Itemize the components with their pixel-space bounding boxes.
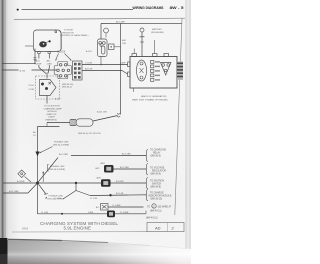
svg-text:105 WIRE AT: 105 WIRE AT [158,206,172,209]
svg-text:C104: C104 [29,85,35,87]
svg-text:TO: TO [147,207,150,209]
svg-text:HARNESS): HARNESS) [46,119,58,122]
svg-text:(BACK OF GENERATOR): (BACK OF GENERATOR) [141,95,167,98]
svg-text:TO VOLTAGE: TO VOLTAGE [150,167,165,170]
svg-text:REGULATOR: REGULATOR [152,170,166,173]
svg-text:TO CHARGE: TO CHARGE [150,192,164,195]
svg-text:GRY: GRY [95,168,100,170]
svg-text:(8W-30-6): (8W-30-6) [151,174,162,176]
svg-text:L1 12B: L1 12B [90,198,97,200]
svg-text:14B: 14B [122,43,126,45]
svg-text:BATTERY: BATTERY [152,28,162,31]
svg-text:A 14BR: A 14BR [17,180,25,183]
svg-text:A1 14B: A1 14B [116,192,124,195]
svg-text:RELAY: RELAY [153,152,161,155]
svg-text:INDICATOR MODULE: INDICATOR MODULE [149,195,172,198]
svg-text:A 12BR: A 12BR [116,180,124,183]
svg-text:L1 12B: L1 12B [54,198,61,200]
svg-text:TO DIODE FOR: TO DIODE FOR [44,106,60,108]
svg-text:(PART SIDE TOWARD OF ENGINE): (PART SIDE TOWARD OF ENGINE) [132,98,168,101]
svg-text:CHARGING LAMP: CHARGING LAMP [44,107,63,110]
svg-text:MODULE: MODULE [48,111,58,113]
svg-text:A 143: A 143 [86,50,92,53]
svg-text:A 142: A 142 [55,98,61,101]
svg-text:(8W-30-6) 13C SPLICE: (8W-30-6) 13C SPLICE [78,133,101,135]
svg-text:TO CHARGING: TO CHARGING [150,149,166,152]
svg-text:A 130: A 130 [20,70,26,73]
svg-text:A13 14BK: A13 14BK [9,190,19,193]
svg-text:DASH: DASH [49,116,55,119]
svg-text:A142 14R: A142 14R [97,111,107,114]
svg-text:AD: AD [155,225,161,230]
svg-text:(8W-40-11): (8W-40-11) [146,218,158,220]
svg-text:A4 14R: A4 14R [85,68,93,71]
svg-text:(8W-30-10): (8W-30-10) [151,199,163,201]
svg-text:TO FUSE: TO FUSE [64,30,74,32]
svg-text:WIRING DIAGRAMS: WIRING DIAGRAMS [133,5,164,10]
svg-text:(8W-30-15): (8W-30-15) [62,84,73,86]
svg-text:14BR: 14BR [120,63,126,65]
svg-text:A1R: A1R [101,162,106,165]
svg-text:A0 14BR: A0 14BR [116,21,125,24]
svg-text:A1 12BR: A1 12BR [59,153,68,156]
svg-text:(PART OF: (PART OF [47,113,58,116]
svg-text:5.9L ENGINE: 5.9L ENGINE [64,225,92,230]
svg-text:(CENTER OF DASH PANEL): (CENTER OF DASH PANEL) [60,34,89,37]
svg-text:(8W-30-8): (8W-30-8) [151,187,162,189]
svg-text:L4 14R: L4 14R [85,63,92,65]
svg-text:L1 14B: L1 14B [41,212,48,214]
svg-text:14BK: 14BK [88,212,94,214]
svg-text:G: G [153,206,155,208]
svg-text:(IN ENGINE): (IN ENGINE) [151,32,164,34]
svg-text:A1 12BR: A1 12BR [120,166,129,169]
svg-text:(8W-40-11): (8W-40-11) [150,211,162,213]
svg-text:(8W-30-2): (8W-30-2) [62,87,72,89]
svg-text:(8W-30-6 WIRE): (8W-30-6 WIRE) [49,169,65,171]
svg-text:(8W-30-5): (8W-30-5) [151,156,162,158]
svg-text:FUSIBLE LINK: FUSIBLE LINK [54,142,69,144]
svg-text:(8W-30-2 WIRE): (8W-30-2 WIRE) [53,145,69,147]
svg-text:C10B: C10B [29,89,35,91]
svg-text:RESISTOR: RESISTOR [63,32,75,34]
svg-text:A1 12BR: A1 12BR [122,153,131,156]
svg-text:TO IGNITION: TO IGNITION [150,181,164,183]
svg-text:SWITCH: SWITCH [152,184,161,186]
svg-text:A1R: A1R [97,177,102,180]
svg-text:L1 14BR: L1 14BR [112,205,121,207]
svg-text:90W8: 90W8 [22,228,29,230]
svg-text:8W - 5: 8W - 5 [170,5,185,10]
svg-text:FUSIBLE LINK: FUSIBLE LINK [50,166,65,168]
svg-text:11 14BR: 11 14BR [120,212,129,214]
svg-text:BLACK: BLACK [58,51,66,54]
